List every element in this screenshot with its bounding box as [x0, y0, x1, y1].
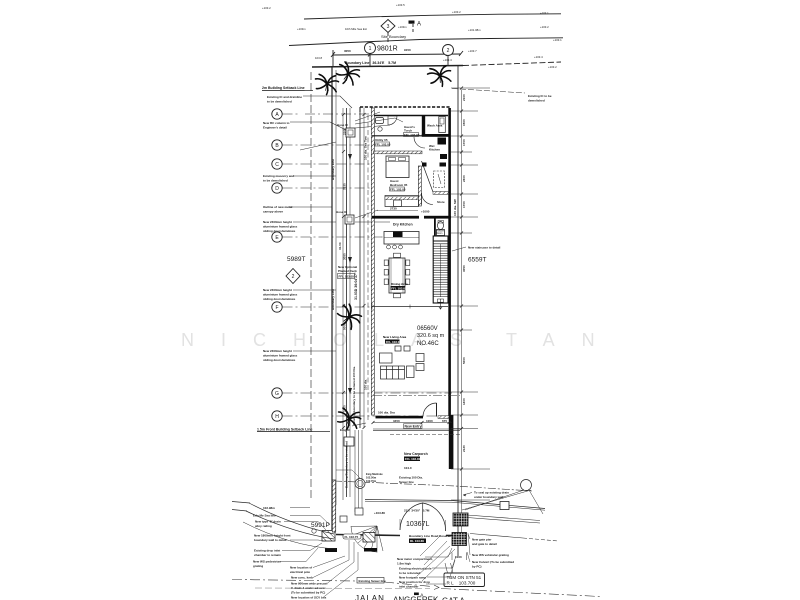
svg-text:New conc. kerb: New conc. kerb: [291, 576, 313, 580]
dim 2730: [377, 210, 418, 212]
palm tree top 3: [426, 64, 453, 90]
svg-text:New Carporch: New Carporch: [404, 452, 428, 456]
left boundary line: [331, 66, 333, 535]
svg-text:10367L: 10367L: [406, 521, 429, 528]
tree circle: [521, 480, 532, 491]
svg-text:sliding doors/windows: sliding doors/windows: [263, 297, 296, 301]
svg-text:Existing 100 Dia.: Existing 100 Dia.: [399, 476, 423, 480]
guest toilet fixtures: [376, 118, 384, 124]
svg-text:To seal up existing drain: To seal up existing drain: [474, 491, 509, 495]
svg-text:+103.4: +103.4: [534, 55, 543, 59]
svg-text:+103.2: +103.2: [540, 25, 549, 29]
faint lines above entry: [375, 391, 448, 393]
sewer dash line: [334, 481, 532, 491]
svg-text:New 900mm wide precast: New 900mm wide precast: [291, 582, 327, 586]
main cross wall black: [372, 216, 419, 219]
toilet partition wall black: [422, 115, 425, 137]
svg-text:3050: 3050: [344, 49, 351, 53]
svg-text:FFL 103.00: FFL 103.00: [405, 457, 421, 461]
right wall thick at carporch: [449, 415, 454, 469]
svg-text:A: A: [417, 22, 421, 28]
2m setback vertical dashed line: [310, 72, 312, 500]
canopy dashed outline top: [360, 106, 450, 108]
svg-text:Exig Manhole: Exig Manhole: [366, 472, 383, 476]
deck strip continuation lines: [355, 430, 362, 514]
svg-text:2: 2: [447, 48, 450, 54]
svg-text:Boundary Line: Boundary Line: [331, 289, 335, 310]
svg-text:New staircase to detail: New staircase to detail: [468, 246, 501, 250]
road curves left: [232, 502, 336, 550]
A section marker: [409, 21, 415, 24]
svg-text:Existing Sewer line: Existing Sewer line: [359, 579, 387, 583]
svg-text:7030: 7030: [343, 183, 347, 190]
A marker tick: [412, 24, 414, 34]
svg-text:New gate pier: New gate pier: [472, 538, 492, 542]
svg-text:Exig IC: Exig IC: [340, 428, 351, 432]
svg-text:103.8: 103.8: [315, 56, 322, 60]
deck strip lines: [342, 108, 344, 500]
svg-text:Room: Room: [436, 232, 442, 235]
svg-text:grating: grating: [253, 564, 263, 568]
manhole: [355, 479, 365, 489]
store door arc: [422, 193, 434, 205]
road centre dashed lines: [232, 580, 356, 582]
svg-text:D: D: [275, 186, 279, 192]
svg-text:New position for drop: New position for drop: [399, 580, 430, 584]
svg-text:+103.86: +103.86: [374, 511, 385, 515]
right boundary verticals: [457, 66, 459, 556]
leader diamond3: [387, 32, 389, 43]
note leaders: [303, 96, 352, 108]
left bottom labels: [253, 506, 327, 600]
svg-text:100 dia. SW: 100 dia. SW: [453, 199, 457, 216]
toilet door arc: [388, 116, 397, 125]
svg-text:aluminium framed glass: aluminium framed glass: [263, 225, 298, 229]
svg-text:New 2400mm height: New 2400mm height: [263, 349, 292, 353]
svg-text:1400: 1400: [462, 398, 466, 405]
svg-text:1700: 1700: [462, 201, 466, 208]
existing hatched wall below utility: [374, 151, 423, 154]
driveway fan: [351, 526, 383, 553]
svg-text:G: G: [275, 391, 279, 397]
grid circle 2: [443, 45, 454, 56]
wardrobe: [385, 196, 419, 207]
right wall black: [448, 108, 451, 416]
section A marker bottom: [414, 593, 419, 596]
front kerb double lines: [365, 500, 545, 509]
svg-text:+103m: +103m: [398, 25, 407, 29]
site boundary upper line: [289, 38, 563, 46]
svg-text:+103.5: +103.5: [396, 3, 405, 7]
svg-text:New 2400mm height: New 2400mm height: [263, 288, 292, 292]
staircase: [433, 230, 448, 310]
svg-text:New Entry: New Entry: [405, 425, 422, 429]
svg-text:New WS pedestrian: New WS pedestrian: [253, 560, 281, 564]
front wall: [376, 416, 424, 419]
small deck box near entry: [344, 437, 354, 446]
existing IC note: [452, 89, 525, 94]
svg-text:New type 'B' drain: New type 'B' drain: [255, 520, 281, 524]
svg-text:New location of SCV box: New location of SCV box: [291, 596, 327, 600]
svg-text:sliding doors/windows: sliding doors/windows: [263, 358, 296, 362]
bath diagonal screen: [422, 161, 434, 192]
IC box lower: [345, 215, 354, 224]
boundary wall hatched segment: [332, 480, 335, 532]
svg-text:U-drain & enclosed over: U-drain & enclosed over: [291, 586, 326, 590]
dimension line top: [333, 54, 461, 55]
manhole box on kerb: [500, 502, 509, 510]
svg-text:+103.1: +103.1: [540, 11, 549, 15]
bath fixtures: [422, 163, 427, 167]
dining table: [389, 258, 405, 293]
bed: [386, 156, 409, 178]
svg-text:FFL 103.05: FFL 103.05: [386, 340, 402, 344]
svg-text:Boundary Line: Boundary Line: [331, 159, 335, 180]
existing sewer line box: [357, 578, 384, 584]
svg-text:GAT A: GAT A: [442, 597, 465, 600]
grid circle 1: [365, 43, 376, 54]
svg-text:Existing masonry wall: Existing masonry wall: [263, 174, 295, 178]
svg-text:+101.08m: +101.08m: [468, 28, 481, 32]
small IC boxes: [355, 508, 363, 515]
svg-text:102.50m: 102.50m: [366, 476, 377, 480]
spot levels: [262, 3, 562, 69]
svg-text:5989T: 5989T: [287, 256, 305, 263]
svg-text:Existing Boundary to be retain: Existing Boundary to be retained: [345, 441, 349, 488]
svg-text:3050: 3050: [343, 253, 347, 260]
svg-text:2400: 2400: [462, 175, 466, 182]
svg-text:10th Mile Sea Ext: 10th Mile Sea Ext: [345, 27, 367, 31]
strip rotated dims: [343, 128, 368, 412]
rotated dimension texts: [453, 94, 466, 452]
svg-text:3450: 3450: [393, 419, 400, 423]
right kerb lines: [467, 515, 558, 541]
leader circle1: [369, 54, 371, 67]
waffle gratings: [453, 513, 468, 526]
svg-text:Dry Kitchen: Dry Kitchen: [393, 223, 413, 227]
svg-text:102.70m: 102.70m: [366, 479, 377, 483]
drain flow arrows: [348, 154, 352, 160]
svg-text:inlet chamber: inlet chamber: [399, 585, 419, 589]
svg-text:New WS vehicular grating: New WS vehicular grating: [472, 553, 509, 557]
svg-text:102.98m: 102.98m: [263, 506, 275, 510]
svg-text:2730: 2730: [390, 207, 397, 211]
svg-text:3: 3: [387, 24, 390, 30]
svg-text:+103.2: +103.2: [452, 10, 461, 14]
svg-text:FFL 103.05: FFL 103.05: [375, 142, 391, 146]
leader lines bottom left: [280, 508, 358, 598]
road top edge line: [304, 14, 561, 19]
leaders from bottom middle notes: [400, 519, 456, 584]
svg-text:alloy railing: alloy railing: [255, 524, 272, 528]
svg-text:1000: 1000: [426, 419, 433, 423]
black blocks: [325, 548, 337, 552]
powder room: [434, 219, 436, 236]
svg-text:100 dia. Sea Tow: 100 dia. Sea Tow: [364, 136, 368, 160]
svg-text:+103.2: +103.2: [548, 65, 557, 69]
wet kitchen fixture: [438, 138, 447, 145]
svg-text:+103.1: +103.1: [553, 38, 562, 42]
svg-text:A: A: [421, 592, 424, 597]
kitchen island: [384, 232, 419, 245]
svg-text:104.0: 104.0: [404, 466, 412, 470]
svg-text:9801R: 9801R: [377, 46, 398, 53]
palm tree deck middle: [333, 302, 365, 333]
svg-text:Engineer's detail: Engineer's detail: [263, 126, 287, 130]
leader circle2: [447, 56, 449, 66]
svg-text:to be demolished: to be demolished: [263, 179, 288, 183]
svg-text:675: 675: [442, 419, 447, 423]
front door arc: [423, 403, 437, 417]
wash fixture: [439, 117, 446, 133]
svg-text:+103.7: +103.7: [468, 49, 477, 53]
svg-text:100 dia. Dra: 100 dia. Dra: [378, 411, 395, 415]
svg-text:Edn Me Sea line: Edn Me Sea line: [253, 514, 276, 518]
palm tree top 2: [333, 60, 362, 88]
svg-text:Existing drop inlet: Existing drop inlet: [254, 549, 280, 553]
svg-text:2100: 2100: [343, 128, 347, 135]
diamond 2: [286, 269, 300, 284]
store hatched wall: [433, 192, 449, 195]
palm tree deck lower: [336, 407, 362, 431]
gate pier hatched right: [363, 533, 375, 543]
svg-text:FFL 103.05: FFL 103.05: [390, 187, 406, 191]
svg-text:1.8m high: 1.8m high: [397, 562, 411, 566]
svg-text:Site Boundary: Site Boundary: [381, 34, 406, 39]
wall under toilets: [372, 135, 422, 137]
svg-text:1700: 1700: [462, 139, 466, 146]
TBM box: [444, 573, 485, 587]
svg-text:Existing IC and drainline: Existing IC and drainline: [267, 95, 302, 99]
svg-text:Sewer line: Sewer line: [399, 480, 414, 484]
svg-text:9150: 9150: [404, 48, 411, 52]
svg-text:New footpath ramp: New footpath ramp: [399, 576, 426, 580]
svg-text:by PC): by PC): [472, 565, 482, 569]
svg-text:New Culvert (To be submitted: New Culvert (To be submitted: [472, 560, 514, 564]
svg-text:FFL 103.05: FFL 103.05: [339, 275, 355, 279]
svg-text:31.03: 31.03: [338, 242, 342, 250]
svg-text:+103m: +103m: [297, 27, 306, 31]
svg-text:Hose IC: Hose IC: [336, 210, 348, 214]
beam line at F: [372, 306, 448, 308]
svg-text:New Living Area: New Living Area: [383, 335, 407, 339]
svg-text:NO.46C: NO.46C: [417, 341, 439, 347]
svg-text:C: C: [275, 162, 279, 168]
carporch top lines: [373, 429, 460, 431]
svg-text:Kitchen: Kitchen: [429, 148, 440, 152]
svg-text:1000: 1000: [455, 555, 462, 559]
svg-text:100 dia.: 100 dia.: [364, 379, 368, 390]
circled node: [312, 529, 316, 533]
svg-text:canopy above: canopy above: [263, 210, 283, 214]
diagonal leader: [352, 423, 366, 426]
boundary line main (thick): [312, 66, 463, 68]
entry dimension line: [373, 422, 452, 424]
svg-text:TBM ON STN 51: TBM ON STN 51: [447, 575, 482, 580]
svg-text:Boundary Line 36.34'E 5.7: Boundary Line 36.34'E 5.7M: [345, 61, 396, 65]
svg-text:ANGGEREK: ANGGEREK: [393, 596, 439, 600]
svg-text:to be relocated: to be relocated: [399, 571, 421, 575]
svg-text:R L 103.700: R L 103.700: [447, 580, 476, 585]
svg-text:2130: 2130: [462, 445, 466, 452]
svg-text:3050: 3050: [462, 265, 466, 272]
new optional planted deck label: [352, 366, 356, 425]
palm tree top 1: [316, 74, 339, 94]
svg-text:+103.4: +103.4: [443, 58, 452, 62]
grid leader lines: [257, 91, 452, 432]
svg-text:2m Building Setback Line: 2m Building Setback Line: [262, 86, 305, 90]
deck strip dimension ticks: [342, 113, 366, 429]
svg-text:New 1800mm height front: New 1800mm height front: [254, 534, 291, 538]
left wall hatched: [371, 108, 374, 415]
svg-text:demolished: demolished: [528, 99, 545, 103]
setback underline leaders: [262, 90, 313, 92]
grid circles A-H: [272, 109, 282, 421]
svg-text:Existing IC to be: Existing IC to be: [528, 94, 552, 98]
svg-text:21'6 34'30" 5.7M: 21'6 34'30" 5.7M: [404, 509, 430, 513]
diamond 3: [381, 20, 395, 33]
svg-text:New location of: New location of: [290, 566, 312, 570]
svg-text:FFL 103.05: FFL 103.05: [391, 286, 407, 290]
svg-text:+1000: +1000: [421, 210, 430, 214]
svg-text:New RC column to: New RC column to: [263, 121, 290, 125]
svg-text:JALAN: JALAN: [355, 594, 385, 600]
svg-text:H: H: [275, 414, 279, 420]
door utility-wet kitchen: [414, 137, 425, 148]
svg-text:under boundary wall: under boundary wall: [474, 495, 504, 499]
svg-text:(To be submitted by PC): (To be submitted by PC): [291, 591, 325, 595]
svg-text:FL 103.75: FL 103.75: [345, 535, 359, 539]
svg-text:06560V: 06560V: [417, 326, 438, 332]
svg-text:5000: 5000: [462, 357, 466, 364]
dim ticks: [460, 87, 463, 471]
svg-text:Hose IC: Hose IC: [337, 123, 349, 127]
svg-text:to be demolished: to be demolished: [267, 100, 292, 104]
extension lines: [451, 88, 490, 500]
svg-text:320.6 sq m: 320.6 sq m: [417, 333, 445, 339]
front boundary wall segments: [336, 535, 400, 536]
meter compartment notes: [397, 557, 433, 589]
svg-text:Existing boundary to be retain: Existing boundary to be retained 100 Dia…: [352, 366, 356, 425]
IC box upper: [346, 128, 355, 137]
svg-text:electrical pole: electrical pole: [290, 570, 310, 574]
svg-text:TAN: TAN: [506, 330, 622, 350]
svg-text:boundary wall to detail: boundary wall to detail: [254, 538, 287, 542]
svg-text:1: 1: [369, 46, 372, 52]
svg-text:and gate to detail: and gate to detail: [472, 542, 497, 546]
bath hatched wall: [418, 166, 421, 206]
svg-text:New 2400mm height: New 2400mm height: [263, 220, 292, 224]
svg-text:aluminium framed glass: aluminium framed glass: [263, 354, 298, 358]
svg-text:Store: Store: [437, 200, 445, 204]
dim 1000 vertical: [452, 553, 467, 561]
svg-text:F: F: [275, 305, 278, 311]
sofa set: [380, 346, 425, 379]
top wall: [372, 115, 448, 117]
svg-text:1500: 1500: [462, 119, 466, 126]
svg-text:+103.2: +103.2: [262, 6, 271, 10]
svg-text:aluminium framed glass: aluminium framed glass: [263, 293, 298, 297]
svg-text:2100: 2100: [462, 94, 466, 101]
svg-text:New meter compartment,: New meter compartment,: [397, 557, 433, 561]
svg-text:RL 103.66: RL 103.66: [410, 539, 424, 543]
svg-text:6559T: 6559T: [468, 257, 486, 264]
diagonal leader bundle top: [300, 112, 403, 222]
svg-text:FFL 103.05: FFL 103.05: [404, 133, 420, 137]
svg-text:5991P: 5991P: [311, 522, 330, 529]
svg-text:chamber to remain: chamber to remain: [254, 553, 281, 557]
svg-text:1.5m Front Building Setback Li: 1.5m Front Building Setback Line: [257, 428, 312, 432]
svg-text:Planted Deck: Planted Deck: [338, 269, 357, 273]
svg-text:2: 2: [292, 274, 295, 280]
gate pier hatched left: [322, 531, 335, 542]
staircase note: [452, 247, 466, 251]
svg-text:Boundary Line Road Reserve: Boundary Line Road Reserve: [409, 534, 451, 538]
gate arcs: [400, 503, 423, 530]
